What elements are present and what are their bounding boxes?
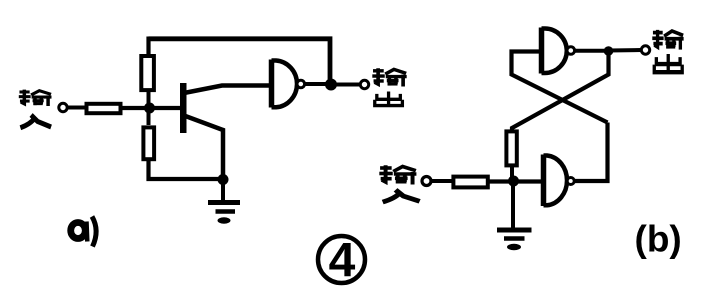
input terminal (a) [59,103,67,111]
label output text (a) 输出 [372,68,406,105]
node emitter junction (a) [218,174,229,185]
gate U2 output bubble [567,178,574,185]
wire junction down to ground (b) [511,181,515,229]
gate U3 output bubble [567,47,575,55]
wire junction down to R3 (a) [147,108,151,125]
wire collector of Q1 to gate input [184,86,270,94]
node base junction (a) [144,103,155,114]
ground (b) [497,230,532,250]
wire base (a) [123,106,181,110]
wire R2 top to top rail (a) [146,37,150,57]
resistor R4 input series (b) [453,177,487,188]
wire node to output terminal (b) [609,48,642,53]
resistor R3 lower (a) [143,127,154,159]
wire to ground (a) [221,180,225,203]
wire emitter of Q1 [184,116,223,181]
wire cross diagonal U3 output to R5 top (b) [512,51,609,131]
wire cross diagonal to U3 input (b) [512,52,608,123]
input terminal (b) [422,177,431,186]
gate U1 NAND body (a) [272,60,298,108]
node output junction (b) [604,46,614,56]
wire resistor to input node (b) [490,179,542,183]
wire U3 output to node (b) [575,49,606,53]
output terminal (a) [360,80,368,88]
label a) [71,217,96,247]
output terminal (b) [641,46,649,54]
transistor Q1 bar [180,83,187,133]
wire U2 output up to cross (b) [574,123,607,182]
svg-text:4: 4 [329,235,356,288]
label input text (a) 输入 [19,90,52,128]
wire junction up to R5 (b) [510,164,514,181]
label output text (b) 输出 [652,30,683,72]
wire R3 bottom to emitter node (a) [149,159,224,179]
resistor R2 upper (a) [141,56,154,90]
resistor R5 coupling (b) [506,131,516,165]
ground (a) [208,203,240,224]
wire terminal to resistor (b) [431,179,452,183]
svg-text:(b): (b) [635,219,682,260]
label figure number 4 [318,235,365,288]
resistor R1 input series (a) [87,104,121,113]
gate U3 upper NAND body (b) [542,28,567,74]
gate U1 output bubble [297,80,305,88]
label input text (b) 输入 [379,165,419,202]
wire terminal to resistor (a) [67,106,86,110]
gate U2 lower NAND body (b) [544,155,568,207]
node input junction (b) [508,176,519,187]
wire gate output to node (a) [305,82,330,86]
wire to output terminal (a) [331,83,360,87]
wire junction up to R2 (a) [147,92,151,108]
wire top feedback rail (a) [149,39,331,84]
node output junction (a) [325,79,337,91]
